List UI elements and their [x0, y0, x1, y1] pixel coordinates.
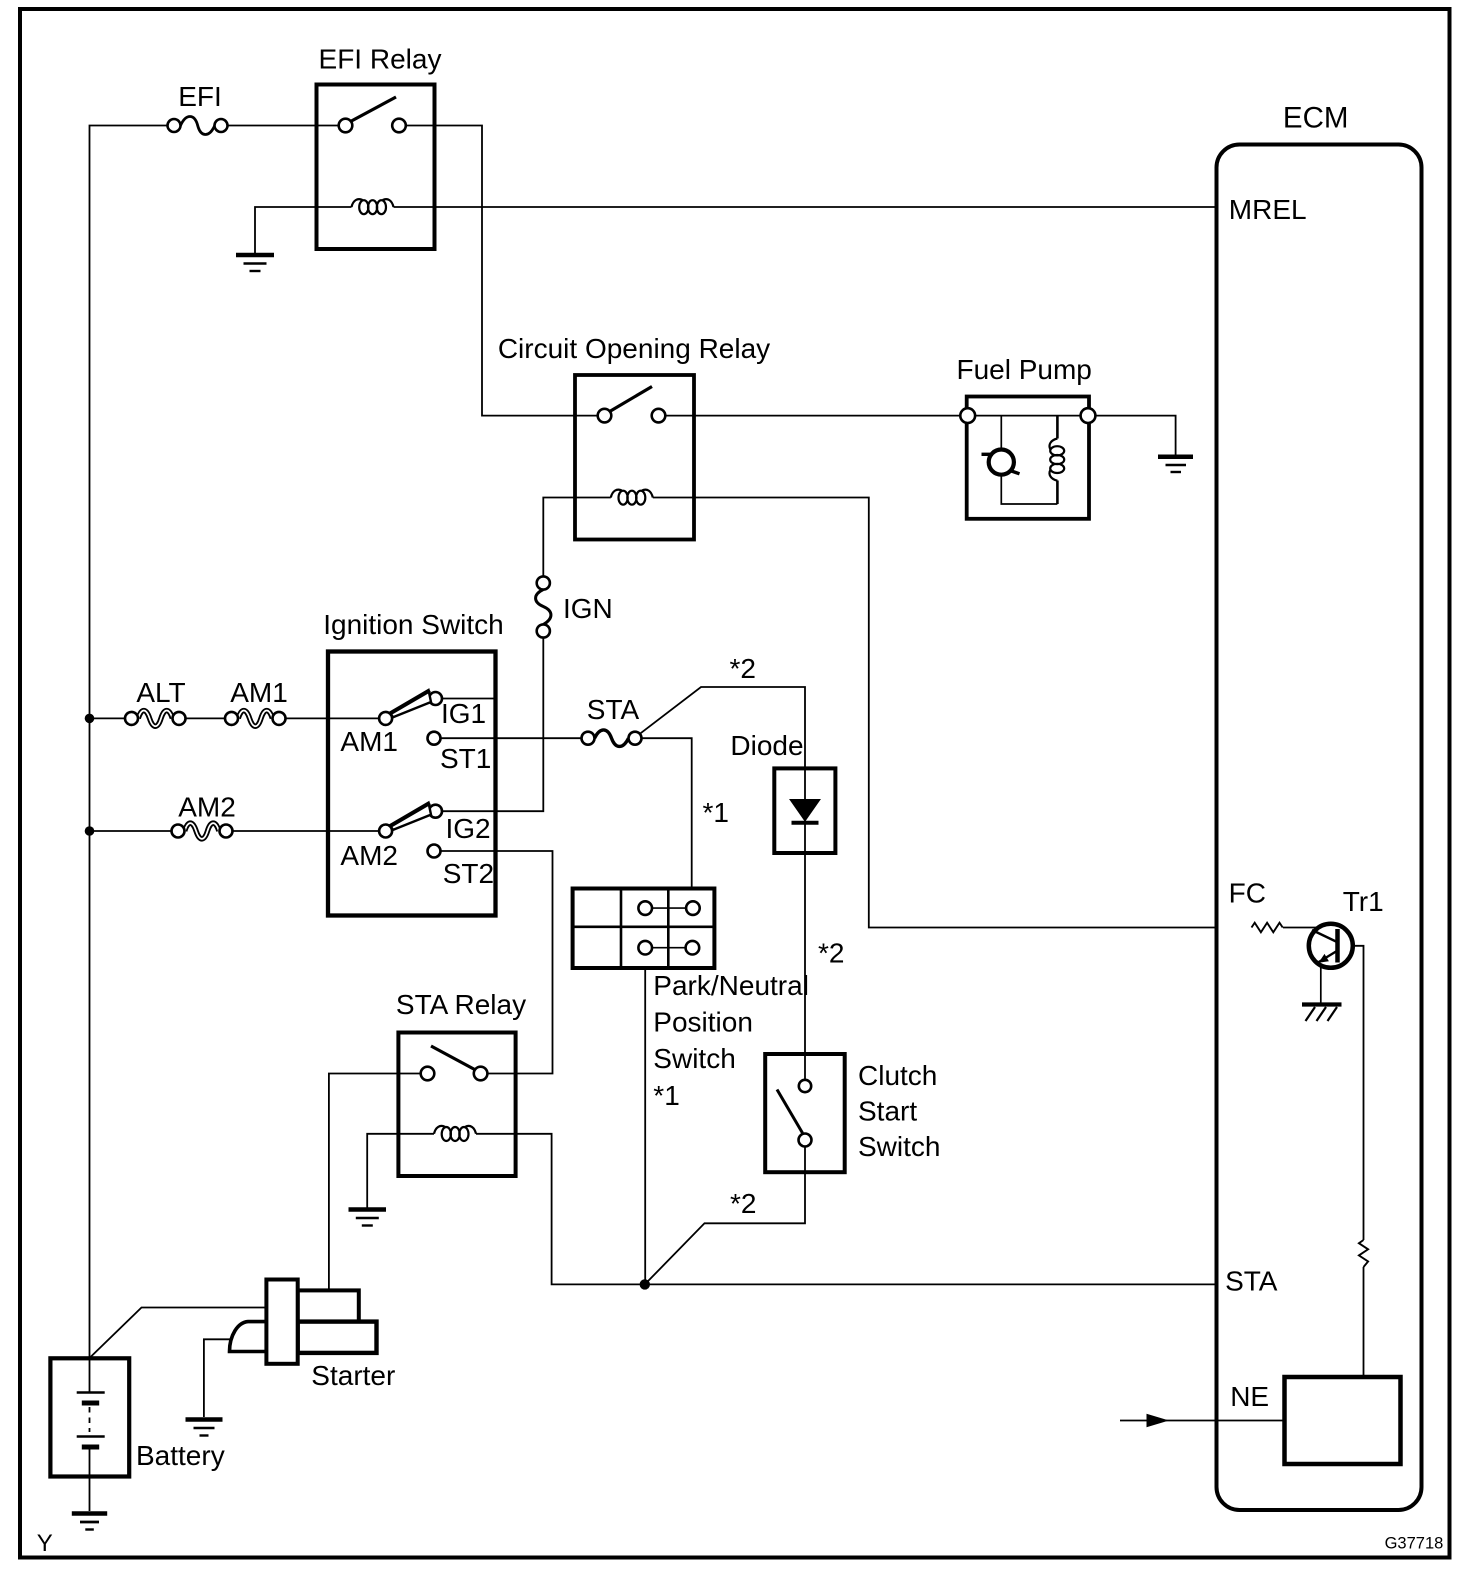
- resistor FC (inside ECM): [1252, 923, 1283, 933]
- wire: clutch switch bottom to junction: [645, 1147, 805, 1285]
- junction node AM1: [85, 714, 95, 724]
- fuse IGN: [536, 576, 551, 637]
- starter top housing: [298, 1290, 359, 1321]
- wire: COR coil right down to FC line into ECM: [653, 498, 1217, 928]
- svg-text:ECM: ECM: [1283, 102, 1349, 135]
- wire: battery to starter: [90, 1308, 267, 1359]
- switch Clutch Start Switch: [765, 1054, 845, 1172]
- ECM box: [1217, 145, 1422, 1511]
- wire: EFI fuse to EFI relay left contact: [221, 125, 346, 127]
- ground (EFI relay coil): [236, 255, 274, 271]
- starter solenoid body: [266, 1280, 297, 1364]
- NE sensor box: [1285, 1377, 1401, 1464]
- wire: Tr1 collector down to NE box: [1353, 946, 1364, 1240]
- starter assembly: [230, 1280, 377, 1364]
- svg-text:Clutch: Clutch: [858, 1060, 937, 1091]
- wire: STA diagonal to diode (*2 branch): [641, 687, 806, 1086]
- EFI relay switch blade: [351, 97, 397, 122]
- wire: battery + bus to EFI fuse: [90, 126, 175, 1359]
- ground (Tr1 emitter, hatched): [1302, 1005, 1342, 1022]
- relay Circuit Opening Relay: [575, 375, 694, 540]
- battery dashed separator: [89, 1407, 91, 1432]
- svg-text:STA: STA: [1225, 1266, 1278, 1297]
- ground (battery): [72, 1514, 107, 1530]
- wire: AM1 row: [90, 717, 132, 719]
- COR contact pins: [598, 409, 612, 423]
- svg-text:AM1: AM1: [340, 726, 398, 757]
- relay EFI Relay: [317, 85, 435, 250]
- svg-text:Position: Position: [653, 1007, 753, 1038]
- svg-text:AM1: AM1: [230, 677, 288, 708]
- arrowhead NE input: [1147, 1414, 1170, 1428]
- clutch switch contact pins: [799, 1080, 811, 1092]
- fusible link AM1: [225, 711, 286, 727]
- clutch switch blade: [777, 1090, 803, 1134]
- svg-text:*1: *1: [703, 797, 729, 828]
- junction node STA: [640, 1279, 650, 1289]
- svg-text:AM2: AM2: [340, 840, 398, 871]
- STA relay coil: [434, 1126, 476, 1141]
- ignition switch AM2-IG2 wedge: [390, 803, 431, 830]
- wire: P/N switch bottom to junction: [644, 968, 646, 1284]
- battery: [50, 1358, 129, 1476]
- diode D (box): [774, 768, 835, 853]
- wire: ST1 to STA fuse: [434, 737, 588, 739]
- svg-text:Circuit Opening Relay: Circuit Opening Relay: [498, 333, 770, 364]
- svg-text:AM2: AM2: [178, 792, 236, 823]
- battery plate long 1: [77, 1391, 105, 1393]
- ground (fuel pump): [1158, 457, 1193, 472]
- svg-text:Switch: Switch: [858, 1131, 940, 1162]
- wire: STA fuse to P/N switch: [635, 738, 692, 888]
- battery plate short 2: [82, 1445, 99, 1450]
- wire: STA relay left contact to starter: [329, 1074, 428, 1291]
- wire: IG1 stub: [436, 698, 496, 700]
- svg-text:IG1: IG1: [441, 698, 486, 729]
- ignition switch contact pins: [379, 712, 392, 725]
- wire: IGN fuse bottom to IG2: [436, 638, 544, 812]
- wire: COR right contact to fuel pump and ground: [659, 416, 1176, 455]
- relay STA Relay: [398, 1033, 515, 1177]
- svg-text:EFI Relay: EFI Relay: [319, 44, 442, 75]
- svg-text:FC: FC: [1229, 878, 1266, 909]
- wire: MREL line from ground stem through coil to ECM: [255, 207, 352, 253]
- svg-text:ST2: ST2: [443, 858, 494, 889]
- wire: STA relay coil right down to STA line junction: [476, 1134, 645, 1285]
- motor Fuel Pump: [960, 397, 1095, 519]
- svg-text:Fuel Pump: Fuel Pump: [956, 354, 1091, 385]
- starter end bell arc: [230, 1322, 267, 1352]
- svg-text:Diode: Diode: [730, 730, 803, 761]
- starter lower housing: [298, 1322, 377, 1353]
- svg-text:ALT: ALT: [136, 677, 185, 708]
- svg-text:Start: Start: [858, 1096, 917, 1127]
- fuel pump terminal pins: [960, 408, 975, 423]
- svg-text:Tr1: Tr1: [1343, 886, 1384, 917]
- ignition switch AM1-IG1 wedge: [390, 690, 431, 717]
- junction node AM2: [85, 826, 95, 836]
- svg-text:STA: STA: [587, 694, 640, 725]
- svg-text:Starter: Starter: [311, 1360, 395, 1391]
- wire: EFI relay right contact down to COR left contact: [399, 126, 605, 416]
- svg-text:STA Relay: STA Relay: [396, 989, 526, 1020]
- wire: ST2 down to STA relay right contact: [434, 851, 553, 1074]
- switch Park/Neutral Position Switch: [573, 889, 715, 969]
- svg-text:G37718: G37718: [1385, 1535, 1444, 1553]
- COR switch blade: [611, 387, 653, 412]
- svg-text:*2: *2: [730, 653, 756, 684]
- fusible link AM2: [172, 823, 233, 839]
- ground (STA relay coil): [349, 1210, 387, 1226]
- battery plate long 2: [77, 1435, 105, 1437]
- wire: COR coil left to IGN fuse vertical: [543, 498, 611, 577]
- wire: NE arrow line: [1120, 1420, 1285, 1422]
- svg-text:ST1: ST1: [440, 743, 491, 774]
- svg-text:Ignition Switch: Ignition Switch: [323, 609, 504, 640]
- svg-text:EFI: EFI: [178, 81, 222, 112]
- COR coil: [611, 490, 653, 505]
- svg-text:*2: *2: [730, 1188, 756, 1219]
- fusible link ALT: [125, 711, 186, 727]
- svg-text:IGN: IGN: [563, 593, 613, 624]
- svg-text:IG2: IG2: [446, 813, 491, 844]
- EFI relay contact pins: [339, 119, 353, 133]
- wire: AM2 row: [90, 830, 179, 832]
- svg-text:MREL: MREL: [1229, 194, 1307, 225]
- fuse STA: [582, 730, 642, 747]
- battery plate short 1: [82, 1401, 99, 1406]
- STA relay contact pins: [421, 1067, 435, 1081]
- svg-text:*2: *2: [818, 938, 844, 969]
- wire: battery internal top: [89, 1358, 91, 1392]
- svg-text:Switch: Switch: [653, 1043, 735, 1074]
- svg-text:*1: *1: [653, 1080, 679, 1111]
- resistor NE (vertical): [1359, 1240, 1368, 1267]
- fuse EFI: [168, 117, 228, 135]
- svg-text:Battery: Battery: [136, 1440, 225, 1471]
- ground (starter): [186, 1420, 223, 1436]
- EFI relay coil: [352, 199, 394, 214]
- wire: starter solenoid to ground: [204, 1339, 232, 1417]
- svg-text:Park/Neutral: Park/Neutral: [653, 970, 809, 1001]
- STA relay switch blade: [431, 1046, 477, 1071]
- wire: battery internal bottom + ground stem: [89, 1449, 91, 1511]
- wire: STA line junction to ECM: [645, 1283, 1217, 1285]
- wire: STA relay coil left to ground stem: [367, 1134, 434, 1208]
- ignition switch box: [328, 652, 496, 916]
- fuel pump coil branch: [1056, 416, 1059, 439]
- transistor Tr1: [1283, 924, 1353, 1003]
- svg-text:NE: NE: [1230, 1381, 1269, 1412]
- svg-text:Y: Y: [37, 1530, 53, 1557]
- fuel pump motor branch: [1000, 416, 1002, 450]
